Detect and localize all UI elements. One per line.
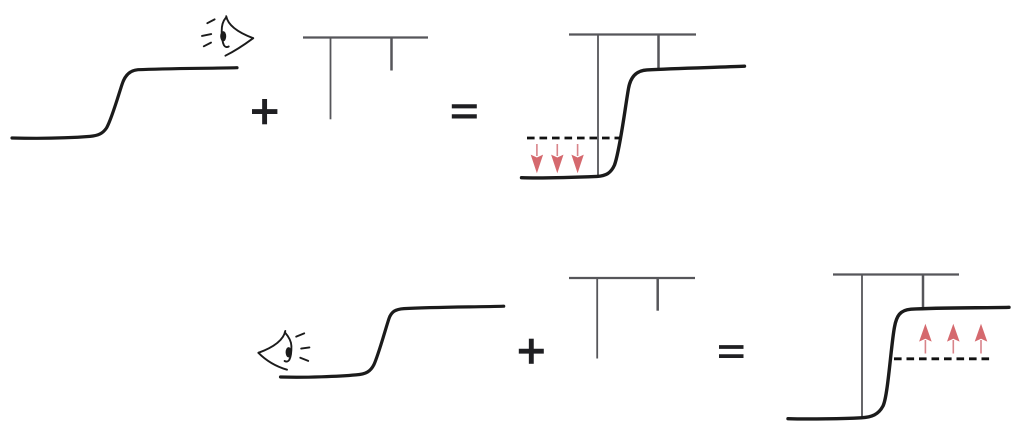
equals sign 2 bbox=[719, 347, 744, 356]
result 2: upward arrow a bbox=[919, 324, 932, 354]
result 2: dashed perceived level line bbox=[894, 357, 991, 360]
result 2: step edge curve bbox=[788, 307, 1009, 419]
plus sign 2 bbox=[519, 339, 544, 364]
step edge curve (top-left luminance profile) bbox=[12, 68, 237, 139]
grating profile 2 (bottom middle comb) bbox=[569, 278, 695, 359]
result 2: upward arrow b bbox=[947, 324, 960, 354]
result 1: downward arrow c bbox=[571, 144, 583, 173]
grating profile 1 (top middle comb) bbox=[303, 38, 428, 120]
equals sign 1 bbox=[452, 106, 477, 116]
plus sign 1 bbox=[252, 99, 277, 124]
result 1: step edge curve bbox=[522, 66, 745, 178]
step edge curve (bottom-left luminance profile) bbox=[281, 306, 504, 377]
result 2: upward arrow c bbox=[975, 324, 988, 354]
result 2: comb over step edge bbox=[833, 275, 959, 418]
eye (observer, top, looking left) bbox=[202, 16, 253, 56]
result 1: comb over step edge bbox=[569, 35, 696, 177]
result 1: dashed perceived level line bbox=[527, 137, 620, 140]
eye (observer, bottom, looking right) bbox=[258, 331, 309, 370]
result 1: downward arrow b bbox=[551, 144, 563, 173]
result 1: downward arrow a bbox=[531, 144, 543, 173]
